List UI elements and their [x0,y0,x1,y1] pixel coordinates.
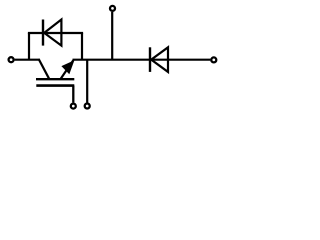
wire antiparallel loop left riser [28,33,30,60]
wire gate-bar drop [72,86,74,103]
transistor Q1 IGBT [36,59,74,86]
gate bar [36,84,74,87]
wire antiparallel loop right riser [81,33,83,60]
diode D2 triangle [151,47,168,72]
wire main rail [73,59,211,61]
wire antiparallel loop top [28,32,83,34]
terminal output (right circle) [211,57,216,62]
terminal aux emitter (bottom-right circle) [85,104,90,109]
wire collector lead [15,59,40,61]
emitter diagonal [60,60,73,79]
diode D1 triangle [44,20,61,46]
wire aux-emitter drop [86,60,88,103]
terminal gate (bottom-left circle) [71,104,76,109]
channel bar [36,78,74,80]
diode D2 (series) cathode bar [149,47,151,72]
diode D1 (antiparallel) cathode bar [42,20,44,46]
emitter arrowhead [61,60,74,74]
terminal top (circle) [110,6,115,11]
collector diagonal [39,59,50,79]
wire top terminal drop [111,12,113,60]
terminal collector (left circle) [9,57,14,62]
